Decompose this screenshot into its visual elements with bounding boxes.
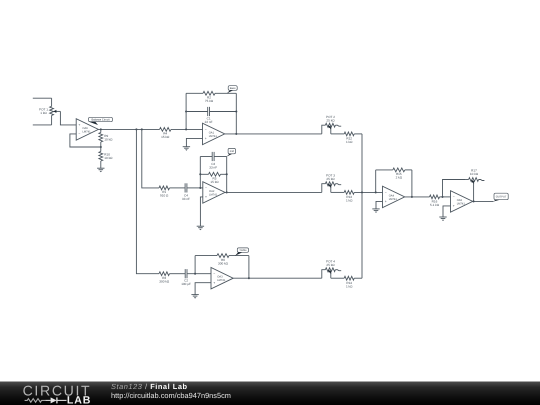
potentiometer POT2 25k	[322, 123, 341, 134]
wire OA4 fb left vertical	[375, 170, 377, 193]
wire POT4 wiper to R14	[331, 277, 344, 279]
wire OA4 output row	[405, 196, 430, 198]
tag Balance Circuit	[89, 117, 113, 125]
wire OA2 + input to ground	[200, 197, 202, 226]
ground (summing stage)	[372, 209, 379, 213]
footer title Stan123 / Final Lab	[111, 382, 188, 391]
potentiometer POT1 1k (vertical body)	[50, 106, 54, 115]
capacitor C4 33nF (mid input)	[185, 183, 187, 192]
label R12	[346, 137, 353, 145]
wire R12 to summing bus	[354, 133, 362, 135]
svg-text:10 kΩ: 10 kΩ	[104, 137, 113, 141]
wire OA6 - feedback	[70, 134, 101, 147]
resistor R12 1k	[344, 132, 354, 136]
wire mid fb C3 row	[200, 156, 226, 158]
wire OA6 output	[98, 128, 159, 130]
label R9	[104, 134, 113, 142]
label C4	[182, 193, 190, 201]
node OA4 fb right output row	[411, 196, 413, 198]
potentiometer POT3 25k	[322, 182, 341, 193]
wire R16 to OA5 - input	[440, 196, 451, 198]
ground (mid stage)	[197, 226, 204, 230]
logo resistor zigzag	[25, 399, 46, 403]
svg-text:+: +	[385, 200, 387, 204]
label R1	[160, 190, 169, 198]
svg-text:LM741: LM741	[209, 193, 218, 196]
wire OA2 output row	[225, 191, 322, 193]
logo diode	[45, 397, 66, 403]
svg-text:25 kΩ: 25 kΩ	[326, 119, 335, 123]
node R17 wiper output junction	[473, 200, 475, 202]
label R15	[396, 172, 403, 180]
capacitor C3 33nF (mid feedback)	[212, 152, 214, 161]
wire bus to mid input	[142, 129, 159, 188]
svg-text:LM741: LM741	[209, 135, 218, 138]
svg-text:15 kΩ: 15 kΩ	[161, 135, 170, 139]
svg-text:OUTPUT: OUTPUT	[496, 195, 507, 198]
label R10	[104, 152, 113, 160]
wire R4 to OA1 - input	[171, 128, 203, 130]
wire OA4 fb top row	[376, 169, 412, 171]
svg-text:−: −	[205, 128, 207, 132]
svg-text:LM741: LM741	[82, 130, 91, 133]
wire input top terminal	[33, 98, 52, 106]
potentiometer POT4 25k	[322, 268, 341, 278]
svg-text:LM741: LM741	[457, 202, 466, 205]
wire POT1 bottom terminal	[33, 115, 52, 125]
svg-text:http://circuitlab.com/cba947n9: http://circuitlab.com/cba947n9ns5cm	[111, 391, 231, 400]
wire OA4 fb right vertical	[411, 170, 413, 197]
svg-text:33 nF: 33 nF	[182, 197, 190, 201]
tag Treble	[235, 248, 249, 256]
op-amp OA4 designator	[389, 194, 398, 201]
svg-text:−: −	[453, 195, 455, 199]
potentiometer R17 10k (feedback)	[465, 178, 484, 202]
svg-text:2 kΩ: 2 kΩ	[396, 176, 403, 180]
label C2	[181, 278, 191, 286]
capacitor C1 22nF (bass feedback)	[208, 107, 210, 116]
wire R3 to C2	[170, 273, 186, 275]
svg-text:mid: mid	[230, 150, 235, 153]
resistor R9 10k	[99, 133, 103, 143]
svg-text:75 kΩ: 75 kΩ	[205, 99, 214, 103]
wire POT3 wiper to R13	[331, 191, 344, 193]
footer bar	[0, 382, 540, 405]
node bus tap mid	[141, 128, 143, 130]
resistor R2 75k (bass feedback)	[203, 91, 215, 95]
logo text LAB	[67, 395, 91, 405]
wire treble fb right vertical	[248, 256, 250, 279]
wire C4 to OA2 - input	[187, 187, 203, 189]
svg-text:1 kΩ: 1 kΩ	[346, 284, 353, 288]
svg-text:+: +	[453, 204, 455, 208]
node OA6 output to R9	[100, 128, 102, 130]
svg-text:+: +	[205, 137, 207, 141]
svg-text:33 nF: 33 nF	[209, 166, 217, 170]
node mid fb right R5 row	[226, 173, 228, 175]
wire R9 bottom lead	[100, 142, 102, 147]
wire OA3 + input to ground	[195, 283, 211, 295]
op-amp OA2 (mid)	[203, 182, 225, 203]
node bass fb left on - row	[185, 128, 187, 130]
wire R17 branch vertical	[443, 180, 466, 197]
svg-text:10 kΩ: 10 kΩ	[470, 172, 479, 176]
op-amp OA6 (balance buffer)	[76, 119, 98, 140]
svg-text:1 kΩ: 1 kΩ	[40, 111, 47, 115]
wire bass fb top row	[186, 92, 236, 94]
footer url text	[111, 391, 231, 400]
svg-text:Bass: Bass	[230, 87, 236, 90]
ground (output stage)	[439, 217, 446, 221]
resistor R10 10k	[99, 152, 103, 162]
resistor R3 300k	[159, 272, 170, 276]
svg-text:−: −	[205, 186, 207, 190]
wire POT2 wiper to R12	[331, 133, 344, 135]
wire C2 to OA3 - input	[187, 273, 211, 275]
node bus tap treble	[135, 128, 137, 130]
node mid fb right output row	[226, 191, 228, 193]
wire R10 to ground	[100, 161, 102, 168]
POT1 wiper arrow	[53, 110, 60, 113]
wire R10 top lead	[100, 147, 102, 152]
op-amp OA4 (summing)	[383, 186, 405, 207]
wire R9 top lead	[100, 129, 102, 132]
svg-text:15 kΩ: 15 kΩ	[210, 180, 219, 184]
resistor R15 2k (OA4 feedback)	[393, 168, 405, 172]
svg-text:910 Ω: 910 Ω	[160, 194, 169, 198]
svg-text:300 kΩ: 300 kΩ	[159, 279, 170, 283]
op-amp OA1 (bass)	[203, 123, 225, 144]
resistor R16 5.1k	[430, 195, 440, 199]
label POT4	[326, 260, 335, 268]
label C1	[205, 116, 213, 124]
ground (bass stage)	[183, 147, 190, 151]
svg-text:−: −	[78, 132, 80, 136]
svg-text:Treble: Treble	[239, 249, 247, 252]
svg-text:25 kΩ: 25 kΩ	[326, 263, 335, 267]
ground (balance divider)	[97, 168, 104, 172]
label C3	[209, 162, 217, 170]
wire R1 to C4	[170, 187, 185, 189]
svg-text:10 kΩ: 10 kΩ	[104, 156, 113, 160]
svg-text:+: +	[213, 281, 215, 285]
svg-text:5.1 kΩ: 5.1 kΩ	[430, 203, 440, 207]
wire treble fb left vertical	[194, 256, 196, 274]
node bass fb right output row	[235, 133, 237, 135]
svg-text:+: +	[78, 123, 80, 127]
wire POT1 wiper to op-amp + input	[60, 111, 76, 125]
label POT2	[326, 115, 335, 123]
svg-text:100 µF: 100 µF	[181, 282, 191, 286]
resistor R4 15k	[160, 128, 172, 132]
svg-text:1 kΩ: 1 kΩ	[346, 199, 353, 203]
op-amp OA1 designator	[209, 131, 218, 138]
node OA4 fb left junction	[375, 191, 377, 193]
wire OA5 + input to ground	[443, 206, 451, 217]
ground (treble stage)	[191, 295, 198, 299]
label R4	[161, 132, 170, 140]
svg-text:300 kΩ: 300 kΩ	[218, 261, 229, 265]
svg-text:LM741: LM741	[217, 279, 226, 282]
wire OA3 output row	[233, 277, 322, 279]
wire bass fb right vertical	[235, 93, 237, 134]
resistor R14 1k	[344, 276, 354, 280]
label POT1	[39, 108, 48, 116]
resistor R6 300k (treble feedback)	[217, 254, 229, 258]
wire R14 to summing bus	[354, 277, 362, 279]
wire mid fb left vertical	[199, 157, 201, 188]
capacitor C2 100uF (treble input)	[185, 269, 187, 278]
wire OA1 + input to ground	[186, 138, 202, 146]
label R13	[346, 195, 353, 203]
svg-text:25 kΩ: 25 kΩ	[326, 177, 335, 181]
wire bass fb left vertical	[185, 93, 187, 129]
node bass fb left C1 row	[185, 110, 187, 112]
tag Bass	[227, 86, 237, 94]
resistor R1 910 ohm	[159, 186, 170, 190]
label R5	[210, 177, 219, 185]
label R14	[346, 281, 353, 289]
node mid fb left R5 row	[199, 173, 201, 175]
op-amp OA2 designator	[209, 190, 218, 197]
tag mid	[227, 148, 236, 156]
wire OA5 output row	[473, 200, 494, 202]
svg-text:1 kΩ: 1 kΩ	[346, 140, 353, 144]
label R6	[218, 258, 229, 266]
wire bass fb C1 row	[186, 111, 236, 113]
svg-text:Balance Circuit: Balance Circuit	[91, 119, 109, 122]
svg-text:LAB: LAB	[67, 395, 91, 405]
node R9/R10 junction	[100, 146, 102, 148]
resistor R13 1k	[344, 191, 354, 195]
op-amp OA5 designator	[457, 199, 466, 206]
svg-text:LM741: LM741	[389, 198, 398, 201]
resistor R5 15k (mid feedback)	[209, 172, 221, 176]
svg-text:−: −	[385, 191, 387, 195]
op-amp OA5 (output)	[451, 191, 473, 212]
wire bus to treble input	[136, 129, 159, 273]
tag OUTPUT	[493, 193, 508, 201]
node treble fb right output row	[248, 277, 250, 279]
node R17 branch	[441, 196, 443, 198]
label POT3	[326, 174, 335, 182]
svg-text:Stan123 / Final Lab: Stan123 / Final Lab	[111, 382, 188, 391]
node summing bus junction	[361, 191, 363, 193]
label R16	[430, 200, 440, 208]
op-amp OA6 designator	[82, 127, 91, 134]
svg-text:−: −	[213, 272, 215, 276]
wire OA1 output row	[225, 133, 322, 135]
op-amp OA3 designator	[217, 276, 226, 283]
wire R13 to OA4 - input	[354, 191, 382, 193]
wire mid fb R5 row	[200, 173, 226, 175]
node treble fb left on - row	[194, 273, 196, 275]
node bass fb right C1 row	[235, 110, 237, 112]
label R2	[205, 95, 214, 103]
label R17	[470, 169, 479, 177]
wire OA4 + input to ground	[376, 201, 383, 209]
wire summing bus vertical	[361, 134, 363, 278]
label R3	[159, 276, 170, 284]
svg-text:22 nF: 22 nF	[205, 120, 213, 124]
CircuitLab logo text CIRCUIT	[23, 383, 92, 399]
wire treble fb top row	[195, 255, 249, 257]
node mid fb left on - row	[199, 187, 201, 189]
wire mid fb right vertical	[226, 157, 228, 193]
op-amp OA3 (treble)	[211, 268, 233, 289]
svg-text:+: +	[205, 195, 207, 199]
